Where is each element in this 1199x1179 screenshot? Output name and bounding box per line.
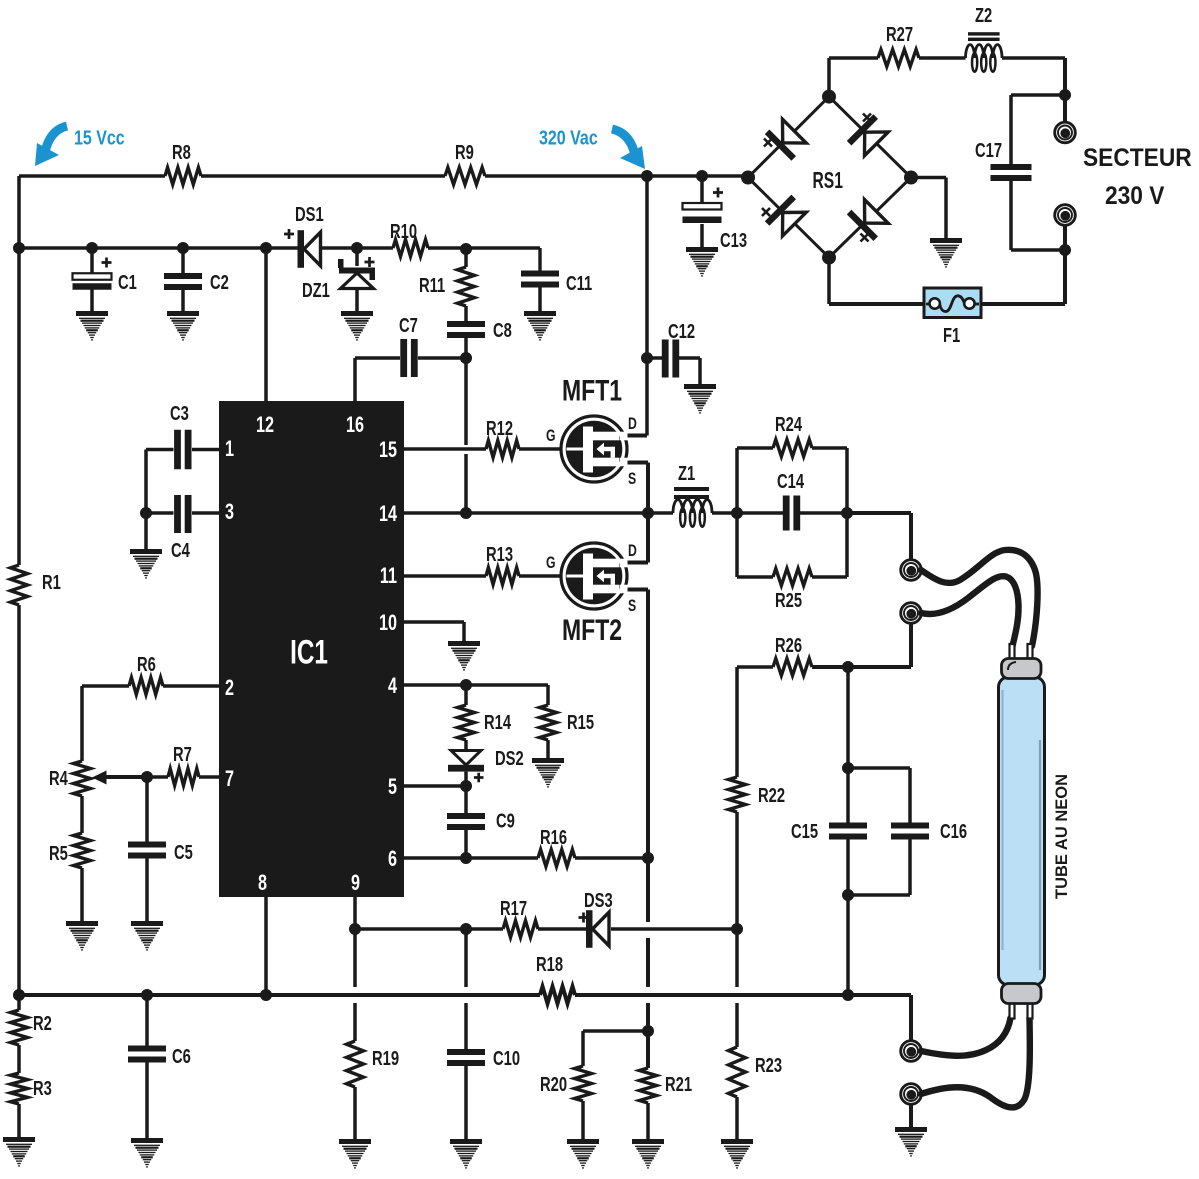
svg-text:C13: C13 bbox=[720, 229, 747, 252]
svg-text:Z2: Z2 bbox=[975, 4, 992, 27]
svg-text:F1: F1 bbox=[943, 324, 960, 347]
svg-text:R8: R8 bbox=[172, 141, 191, 164]
svg-text:230 V: 230 V bbox=[1105, 182, 1164, 210]
svg-text:DZ1: DZ1 bbox=[302, 279, 330, 302]
svg-text:S: S bbox=[628, 470, 636, 488]
svg-text:R17: R17 bbox=[500, 897, 527, 920]
svg-text:C2: C2 bbox=[210, 271, 229, 294]
svg-text:C8: C8 bbox=[493, 319, 512, 342]
svg-text:R11: R11 bbox=[419, 274, 445, 297]
svg-text:R16: R16 bbox=[540, 826, 567, 849]
svg-text:C6: C6 bbox=[172, 1045, 191, 1068]
svg-text:R14: R14 bbox=[484, 711, 511, 734]
svg-text:S: S bbox=[628, 597, 636, 615]
svg-text:R10: R10 bbox=[390, 220, 417, 243]
svg-text:C9: C9 bbox=[496, 809, 515, 832]
svg-text:4: 4 bbox=[388, 673, 397, 698]
svg-text:C12: C12 bbox=[668, 320, 695, 343]
svg-text:R26: R26 bbox=[775, 634, 802, 657]
svg-text:C1: C1 bbox=[118, 271, 137, 294]
svg-text:R23: R23 bbox=[755, 1054, 782, 1077]
svg-text:R21: R21 bbox=[665, 1073, 692, 1096]
svg-text:3: 3 bbox=[225, 499, 234, 524]
svg-text:R24: R24 bbox=[775, 413, 802, 436]
svg-text:C16: C16 bbox=[940, 820, 967, 843]
svg-text:C4: C4 bbox=[171, 539, 190, 562]
svg-text:MFT2: MFT2 bbox=[562, 613, 622, 646]
svg-text:DS3: DS3 bbox=[584, 889, 613, 912]
svg-text:15: 15 bbox=[379, 437, 397, 462]
svg-text:TUBE AU NEON: TUBE AU NEON bbox=[1053, 774, 1071, 899]
svg-text:16: 16 bbox=[346, 412, 364, 437]
svg-text:7: 7 bbox=[225, 766, 234, 791]
svg-text:R18: R18 bbox=[536, 953, 563, 976]
svg-text:C11: C11 bbox=[566, 272, 592, 295]
svg-text:15 Vcc: 15 Vcc bbox=[74, 127, 125, 149]
svg-text:DS1: DS1 bbox=[295, 203, 324, 226]
svg-text:G: G bbox=[546, 427, 556, 445]
svg-text:R15: R15 bbox=[567, 711, 594, 734]
svg-text:R27: R27 bbox=[886, 23, 913, 46]
svg-text:R25: R25 bbox=[775, 589, 802, 612]
svg-text:11: 11 bbox=[380, 563, 397, 588]
svg-text:R6: R6 bbox=[137, 653, 156, 676]
svg-text:MFT1: MFT1 bbox=[562, 374, 622, 407]
svg-text:R22: R22 bbox=[758, 784, 785, 807]
svg-text:RS1: RS1 bbox=[813, 168, 843, 194]
svg-text:C15: C15 bbox=[791, 820, 818, 843]
svg-text:DS2: DS2 bbox=[495, 747, 524, 770]
svg-text:R9: R9 bbox=[455, 141, 474, 164]
svg-text:D: D bbox=[628, 542, 637, 560]
svg-text:C5: C5 bbox=[174, 841, 193, 864]
svg-text:D: D bbox=[628, 415, 637, 433]
svg-text:SECTEUR: SECTEUR bbox=[1083, 144, 1192, 172]
svg-text:C7: C7 bbox=[399, 314, 418, 337]
svg-text:R12: R12 bbox=[486, 417, 513, 440]
svg-text:C17: C17 bbox=[975, 139, 1002, 162]
svg-text:C3: C3 bbox=[170, 402, 189, 425]
svg-text:IC1: IC1 bbox=[290, 634, 328, 672]
svg-text:R5: R5 bbox=[49, 842, 68, 865]
svg-text:C10: C10 bbox=[493, 1047, 520, 1070]
svg-text:R2: R2 bbox=[33, 1012, 52, 1035]
svg-text:R7: R7 bbox=[173, 743, 192, 766]
svg-text:320 Vac: 320 Vac bbox=[539, 127, 598, 149]
svg-text:2: 2 bbox=[225, 675, 234, 700]
svg-text:R19: R19 bbox=[372, 1047, 399, 1070]
svg-text:14: 14 bbox=[379, 501, 397, 526]
svg-text:10: 10 bbox=[379, 610, 397, 635]
svg-text:12: 12 bbox=[256, 412, 274, 437]
svg-text:R1: R1 bbox=[42, 571, 61, 594]
svg-text:R13: R13 bbox=[486, 543, 513, 566]
svg-text:1: 1 bbox=[225, 436, 234, 461]
svg-text:R20: R20 bbox=[540, 1073, 567, 1096]
svg-text:8: 8 bbox=[258, 870, 267, 895]
svg-text:Z1: Z1 bbox=[678, 462, 695, 485]
svg-text:6: 6 bbox=[388, 846, 397, 871]
svg-text:C14: C14 bbox=[777, 470, 804, 493]
svg-text:9: 9 bbox=[351, 870, 360, 895]
svg-text:R3: R3 bbox=[33, 1077, 52, 1100]
svg-text:5: 5 bbox=[388, 774, 397, 799]
svg-text:R4: R4 bbox=[49, 767, 68, 790]
svg-text:G: G bbox=[546, 554, 556, 572]
